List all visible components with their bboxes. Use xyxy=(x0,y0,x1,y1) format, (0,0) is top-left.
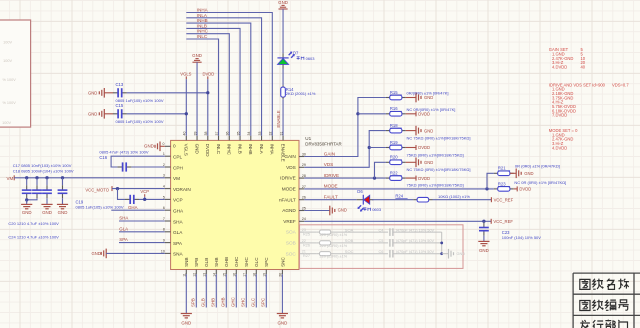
wire net IDRIVE pin28 to R22 xyxy=(304,177,386,179)
svg-text:SHA: SHA xyxy=(173,219,184,224)
wire net GHC stub pin 16 xyxy=(235,274,237,307)
wire net INLC to pin 37 xyxy=(186,39,218,136)
ground GND at R20 xyxy=(406,161,416,163)
svg-text:INLA: INLA xyxy=(259,144,264,155)
svg-text:R24: R24 xyxy=(395,194,403,199)
capacitor C23 xyxy=(483,221,485,222)
wire net GLB stub pin 13 xyxy=(205,274,207,307)
U1 pin 7 (SHA) xyxy=(165,220,171,222)
svg-text:VM: VM xyxy=(173,176,180,181)
wire C23 to GND xyxy=(483,236,485,242)
wire net GHB stub pin 15 xyxy=(225,274,227,307)
svg-text:% 100V: % 100V xyxy=(2,101,16,105)
svg-text:GHA: GHA xyxy=(128,205,138,210)
junction VDRAIN/VCP branch xyxy=(116,187,119,190)
wire VGLS to pin 40 xyxy=(185,79,187,136)
svg-text:SHC: SHC xyxy=(241,298,246,307)
svg-text:GND: GND xyxy=(194,144,199,155)
svg-text:21: 21 xyxy=(302,250,306,254)
svg-text:D6: D6 xyxy=(357,189,363,194)
svg-text:VDRAIN: VDRAIN xyxy=(173,187,191,192)
wire net GLC stub pin 18 xyxy=(255,274,257,307)
svg-text:0805 1uF(105) ±10% 100V: 0805 1uF(105) ±10% 100V xyxy=(116,119,164,124)
title row 图纸名称 xyxy=(580,279,590,289)
ground GND at R18 xyxy=(406,130,416,132)
svg-text:VCC_MOTO: VCC_MOTO xyxy=(85,187,109,192)
svg-text:DVDD: DVDD xyxy=(418,145,430,150)
junction dim 1 xyxy=(440,242,443,245)
dimmed ground GND xyxy=(442,253,449,255)
D7 emission arrows xyxy=(289,53,292,56)
wire pin 11 (SNB) to GND xyxy=(185,274,187,313)
power port DVDD at R22 xyxy=(406,177,416,179)
svg-text:GND: GND xyxy=(88,90,97,95)
resistor R20 xyxy=(386,161,390,163)
svg-text:VREF: VREF xyxy=(283,219,296,224)
capacitor C16 between CPL and CPH xyxy=(111,156,165,167)
svg-text:0R (0R0) ±1% [0R/47KΩ]: 0R (0R0) ±1% [0R/47KΩ] xyxy=(515,163,560,168)
resistor R22 xyxy=(386,177,390,179)
wire net INHB to pin 34 xyxy=(186,23,251,136)
U1 pin 27 (MODE) xyxy=(299,188,304,190)
wire D6 to R24 xyxy=(372,199,413,201)
svg-text:SHB: SHB xyxy=(211,298,216,307)
svg-text:8: 8 xyxy=(163,228,165,232)
svg-text:R23: R23 xyxy=(498,181,506,186)
svg-text:INHC: INHC xyxy=(197,29,209,34)
svg-text:GND: GND xyxy=(479,248,489,253)
svg-text:NC 0R (0R0) ±1% [0R/47KΩ]: NC 0R (0R0) ±1% [0R/47KΩ] xyxy=(514,180,566,185)
svg-text:CPH: CPH xyxy=(173,165,183,170)
svg-text:10KΩ (1002) ±1%: 10KΩ (1002) ±1% xyxy=(438,194,470,199)
U1 pin 23 (SOA) xyxy=(299,231,304,233)
U1 pin 1 (CPL) xyxy=(165,155,171,157)
svg-text:GND: GND xyxy=(91,251,100,256)
power port DVDD at R16 xyxy=(406,113,416,115)
U1 pin 28 (IDRIVE) xyxy=(299,177,304,179)
svg-text:100V: 100V xyxy=(3,41,12,45)
svg-text:VDS: VDS xyxy=(324,162,333,167)
dimmed capacitor C6 xyxy=(335,253,389,255)
svg-text:INLC: INLC xyxy=(216,144,221,155)
svg-text:3: 3 xyxy=(163,174,165,178)
wire DVDD to pin 38 xyxy=(207,79,209,136)
wire VCC_MOTO to pin 4 (VDRAIN) xyxy=(112,188,165,190)
power port DVDD at R23 xyxy=(514,188,518,190)
dimmed region rectangle xyxy=(300,225,464,269)
svg-text:SPC: SPC xyxy=(264,257,269,267)
svg-text:6: 6 xyxy=(163,206,165,210)
svg-text:C15: C15 xyxy=(116,103,124,108)
svg-text:0: 0 xyxy=(163,142,165,146)
U1 pin 25 (AGND) xyxy=(299,210,304,212)
svg-text:7: 7 xyxy=(163,217,165,221)
svg-text:INHB: INHB xyxy=(248,144,253,155)
svg-text:VDS=0.7: VDS=0.7 xyxy=(612,82,629,87)
svg-text:GND: GND xyxy=(181,321,191,326)
svg-text:24: 24 xyxy=(302,217,306,221)
wire C15 to VGLS line xyxy=(127,113,186,115)
junction VM cap 3 xyxy=(45,176,48,179)
svg-text:GND: GND xyxy=(424,160,433,165)
U1 pin 11 (SNB) xyxy=(185,270,187,275)
svg-text:0603: 0603 xyxy=(372,207,382,212)
svg-text:MODE: MODE xyxy=(324,184,338,189)
title row 图纸编号 xyxy=(580,301,590,311)
svg-text:SHC: SHC xyxy=(244,257,249,267)
U1 pin 30 (GAIN) xyxy=(299,156,304,158)
svg-text:4.DVDD: 4.DVDD xyxy=(552,65,567,70)
dimmed wire SOA xyxy=(393,231,442,233)
svg-text:7.DVDD: 7.DVDD xyxy=(552,113,567,118)
svg-text:VCC_REF: VCC_REF xyxy=(493,219,513,224)
svg-text:FAULT: FAULT xyxy=(324,195,338,200)
ground GND at pin 25 (AGND) xyxy=(304,210,329,212)
svg-text:GND: GND xyxy=(42,210,52,215)
power port DVDD at R19 xyxy=(406,147,416,149)
wire net SPB stub pin 12 xyxy=(195,274,197,307)
svg-text:NC 75KΩ (0R0) ±1%[0R/18K/75KΩ]: NC 75KΩ (0R0) ±1%[0R/18K/75KΩ] xyxy=(407,167,471,172)
svg-text:INHB: INHB xyxy=(197,18,208,23)
U1 pin 22 (SOB) xyxy=(299,242,304,244)
svg-text:R21: R21 xyxy=(498,166,506,171)
svg-text:R20: R20 xyxy=(390,155,398,160)
wire pin 20 (SNC) to GND xyxy=(281,274,283,313)
svg-text:R15: R15 xyxy=(390,90,398,95)
svg-text:SOC: SOC xyxy=(286,251,297,256)
svg-text:GND: GND xyxy=(457,252,466,256)
U1 pin 20 (SNC) xyxy=(281,270,283,275)
U1 pin 32 (INHA) xyxy=(271,136,273,141)
svg-text:0603: 0603 xyxy=(306,56,316,61)
svg-text:GND: GND xyxy=(58,210,68,215)
capacitor C19 xyxy=(125,198,130,200)
svg-text:SOC: SOC xyxy=(345,249,354,254)
svg-text:26: 26 xyxy=(302,196,306,200)
svg-text:U1: U1 xyxy=(305,136,311,141)
title block frame xyxy=(573,273,640,328)
resistor R23 xyxy=(494,188,498,190)
svg-text:GND: GND xyxy=(424,95,433,100)
wire net VDS pin29 to R18/R19 xyxy=(304,131,386,168)
svg-text:R25: R25 xyxy=(303,233,310,237)
U1 pin 4 (VDRAIN) xyxy=(165,188,171,190)
dimmed bus vertical xyxy=(441,232,443,254)
ground GND (C24) xyxy=(62,198,64,204)
svg-text:GHB: GHB xyxy=(224,257,229,267)
svg-text:INHC: INHC xyxy=(227,144,232,156)
wire net VREF pin24 to VCC_REF xyxy=(304,220,491,222)
wire net FAULT pin26 to D6 xyxy=(304,199,356,201)
svg-text:GND: GND xyxy=(278,321,288,326)
ground GND (C17/C18) xyxy=(26,200,28,204)
U1 pin 36 (INHC) xyxy=(228,136,230,141)
U1 pin 15 (GHB) xyxy=(225,270,227,275)
U1 pin 17 (SHC) xyxy=(245,270,247,275)
U1 pin 14 (SHB) xyxy=(215,270,217,275)
svg-text:100V: 100V xyxy=(3,59,12,63)
svg-text:5: 5 xyxy=(163,195,165,199)
svg-text:GND: GND xyxy=(88,111,97,116)
dimmed capacitor C5 xyxy=(335,242,389,244)
svg-text:nFAULT: nFAULT xyxy=(279,197,296,202)
U1 pin 0 (PAD) with GND xyxy=(165,145,171,147)
svg-text:NC 0R/(0R0) ±1% [0R/47K]: NC 0R/(0R0) ±1% [0R/47K] xyxy=(407,107,456,112)
U1 pin 34 (INHB) xyxy=(250,136,252,141)
svg-text:25: 25 xyxy=(302,206,306,210)
svg-text:IDRIVE: IDRIVE xyxy=(324,173,339,178)
svg-text:% 100V: % 100V xyxy=(2,78,16,82)
U1 pin 9 (SPA) xyxy=(165,242,171,244)
svg-text:INHA: INHA xyxy=(270,144,275,156)
svg-text:GND: GND xyxy=(22,210,32,215)
svg-text:R16: R16 xyxy=(390,106,398,111)
svg-text:SNB: SNB xyxy=(184,257,189,266)
wire GAIN branch to R16 xyxy=(358,113,386,115)
svg-text:SPA: SPA xyxy=(119,237,128,242)
svg-text:2KΩ (2001) ±1%: 2KΩ (2001) ±1% xyxy=(286,91,316,96)
wire net GAIN pin30 to R15/R16 xyxy=(304,98,386,157)
capacitor C17 xyxy=(26,178,28,185)
LED D6 (red) xyxy=(357,199,364,201)
svg-text:29: 29 xyxy=(302,163,306,167)
resistor R24 xyxy=(413,199,417,201)
junction VCP port xyxy=(143,198,146,201)
svg-text:C16: C16 xyxy=(99,155,107,160)
D6 value label (red LED 0603) xyxy=(363,208,370,211)
junction VREF/C23 xyxy=(482,220,485,223)
svg-text:0805 1uF(105) ±10% 100V: 0805 1uF(105) ±10% 100V xyxy=(116,98,164,103)
wire GND to LED D7 xyxy=(282,9,284,53)
svg-text:INLB: INLB xyxy=(237,144,242,154)
svg-text:DVDD: DVDD xyxy=(202,71,214,76)
svg-text:C20 1210 4.7uF ±10% 100V: C20 1210 4.7uF ±10% 100V xyxy=(8,221,59,226)
wire net INLB to pin 35 xyxy=(186,28,240,135)
svg-text:DVDD: DVDD xyxy=(418,176,430,181)
svg-text:INLB: INLB xyxy=(197,23,207,28)
svg-text:GLC: GLC xyxy=(254,257,259,267)
svg-text:NC 75KΩ (0R0) ±1%[0R/18K/75KΩ]: NC 75KΩ (0R0) ±1%[0R/18K/75KΩ] xyxy=(407,136,471,141)
dimmed resistor R25 net SOA xyxy=(304,231,316,233)
svg-text:0805 1uF(105) ±10% 100V: 0805 1uF(105) ±10% 100V xyxy=(76,204,124,209)
svg-text:220 (22R0) ±1%: 220 (22R0) ±1% xyxy=(320,255,348,259)
svg-text:R19: R19 xyxy=(390,140,398,145)
wire VDS branch to R19 xyxy=(369,147,386,149)
svg-text:4: 4 xyxy=(163,185,165,189)
U1 pin 24 (VREF) xyxy=(299,220,304,222)
ground GND (C20) xyxy=(46,198,48,204)
svg-text:GND: GND xyxy=(424,128,433,133)
svg-text:R27: R27 xyxy=(303,254,310,258)
svg-text:220 (22R0) ±1%: 220 (22R0) ±1% xyxy=(320,244,348,248)
wire net SPC stub pin 19 xyxy=(265,274,267,307)
svg-text:GND: GND xyxy=(278,0,288,5)
svg-text:SHA: SHA xyxy=(119,216,128,221)
svg-text:0R/(0R0) ±1% [0R/47K]: 0R/(0R0) ±1% [0R/47K] xyxy=(407,90,449,95)
svg-text:10: 10 xyxy=(161,249,165,253)
svg-text:28: 28 xyxy=(302,174,306,178)
svg-text:R22: R22 xyxy=(390,171,398,176)
svg-text:1: 1 xyxy=(163,152,165,156)
ground GND at C23 xyxy=(478,240,489,242)
U1 pin 16 (GHC) xyxy=(235,270,237,275)
svg-text:30: 30 xyxy=(302,152,306,156)
wire net SHA to pin 7 xyxy=(119,220,165,222)
svg-text:SNC: SNC xyxy=(280,257,285,267)
svg-text:DVDD: DVDD xyxy=(205,144,210,158)
svg-text:C5: C5 xyxy=(379,239,384,243)
svg-text:DVDD: DVDD xyxy=(519,187,531,192)
junction dim 2 xyxy=(440,252,443,255)
wire branch down to C19 xyxy=(118,189,126,200)
U1 pin 39 (GND) xyxy=(196,136,198,141)
ground GND at pin 11 xyxy=(181,313,192,315)
svg-text:40: 40 xyxy=(581,65,586,70)
svg-text:SPB: SPB xyxy=(194,258,199,267)
svg-text:4.DVDD: 4.DVDD xyxy=(552,145,567,150)
U1 pin 12 (SPB) xyxy=(195,270,197,275)
svg-text:MODE: MODE xyxy=(282,187,296,192)
resistor R16 xyxy=(386,113,390,115)
svg-text:22: 22 xyxy=(302,239,306,243)
capacitor C20 xyxy=(46,178,48,185)
dimmed wire SOB xyxy=(393,242,442,244)
wire MODE branch to R21 xyxy=(487,173,494,189)
ground GND at pin 20 xyxy=(277,313,288,315)
U1 pin 33 (INLA) xyxy=(261,136,263,141)
svg-text:ENABLE: ENABLE xyxy=(276,110,281,127)
op IC U1 DRV8350 body xyxy=(171,140,299,269)
svg-text:C17 0805 10nF(103) ±10% 100V: C17 0805 10nF(103) ±10% 100V xyxy=(13,163,72,168)
wire net GHA to pin 6 xyxy=(111,209,164,211)
svg-text:75KΩ (0R0) ±1%[0R/18K/75KΩ]: 75KΩ (0R0) ±1%[0R/18K/75KΩ] xyxy=(407,183,464,188)
svg-text:GAIN: GAIN xyxy=(324,151,335,156)
svg-text:VCC_REF: VCC_REF xyxy=(494,197,514,202)
wire net GLA to pin 8 xyxy=(119,231,165,233)
svg-text:CPL: CPL xyxy=(173,155,183,160)
svg-text:C13: C13 xyxy=(116,82,124,87)
svg-text:INLA: INLA xyxy=(197,13,207,18)
svg-text:C18 0805 100nF(104) ±10% 100V: C18 0805 100nF(104) ±10% 100V xyxy=(13,169,74,174)
U1 pin 6 (GHA) xyxy=(165,209,171,211)
U1 pin 5 (VCP) xyxy=(165,198,171,200)
wire IDRIVE branch to R20 xyxy=(375,162,386,178)
wire net INLA to pin 33 xyxy=(186,18,261,136)
U1 pin 21 (SOC) xyxy=(299,253,304,255)
sheet block rectangle (partially off-canvas) xyxy=(0,20,31,127)
dimmed resistor R27 net SOC xyxy=(304,253,316,255)
power port VCC_REF (VREF) xyxy=(490,219,492,224)
svg-text:SPA: SPA xyxy=(173,241,183,246)
svg-text:100V: 100V xyxy=(2,121,11,125)
svg-text:AGND: AGND xyxy=(282,208,296,213)
U1 pin 13 (GLB) xyxy=(205,270,207,275)
capacitor C18 xyxy=(36,178,38,185)
svg-text:INHA: INHA xyxy=(197,8,208,13)
svg-text:SOB: SOB xyxy=(345,238,354,243)
svg-text:SOB: SOB xyxy=(286,241,296,246)
dimmed wire SOC xyxy=(393,253,442,255)
junction caps gnd xyxy=(25,198,28,201)
svg-text:D7: D7 xyxy=(293,51,299,56)
wire R14 to pin 31 (ENABLE) xyxy=(282,99,284,136)
svg-text:INLC: INLC xyxy=(197,34,208,39)
U1 pin 31 (ENABLE) xyxy=(282,136,284,141)
junction VM cap 4 xyxy=(61,176,64,179)
wire cap C17 to GND xyxy=(26,198,28,202)
svg-text:SPB: SPB xyxy=(191,298,196,307)
svg-text:0805 47uF (473) 10% 100V: 0805 47uF (473) 10% 100V xyxy=(99,150,148,155)
resistor R18 xyxy=(386,130,390,132)
wire C19 to pin 5 (VCP) xyxy=(139,198,165,200)
svg-text:GLB: GLB xyxy=(204,258,209,267)
svg-text:VGLS: VGLS xyxy=(184,144,189,156)
wire net MODE pin27 to R23 xyxy=(304,188,494,190)
svg-text:SNA: SNA xyxy=(173,252,184,257)
U1 pin 18 (GLC) xyxy=(255,270,257,275)
wire R24 to VCC_REF xyxy=(433,199,492,201)
capacitor C24 xyxy=(62,178,64,185)
LED D7 (green) xyxy=(282,53,284,58)
svg-text:2: 2 xyxy=(163,163,165,167)
svg-text:GHA: GHA xyxy=(173,209,184,214)
svg-text:VGLS: VGLS xyxy=(180,71,191,76)
U1 pin 35 (INLB) xyxy=(239,136,241,141)
ground GND at R21 xyxy=(510,172,516,174)
wire VM to pin 3 xyxy=(14,177,165,179)
U1 pin 29 (VDS) xyxy=(299,166,304,168)
svg-text:GLA: GLA xyxy=(173,230,183,235)
svg-text:GLC: GLC xyxy=(251,298,256,307)
wire net SPA to pin 9 xyxy=(119,242,165,244)
resistor R15 xyxy=(386,97,390,99)
U1 pin 8 (GLA) xyxy=(165,231,171,233)
wire net INHA to pin 32 xyxy=(186,13,272,136)
wire net SHB stub pin 14 xyxy=(215,274,217,307)
junction VDS/R19 xyxy=(368,146,371,149)
U1 pin 2 (CPH) xyxy=(165,166,171,168)
svg-text:C6: C6 xyxy=(379,250,384,254)
dimmed capacitor C4 xyxy=(335,231,389,233)
wire GND to pin 39 xyxy=(196,62,198,136)
svg-text:GHC: GHC xyxy=(234,256,239,267)
svg-text:9: 9 xyxy=(163,239,165,243)
svg-text:VCP: VCP xyxy=(173,198,183,203)
U1 pin 40 (VGLS) xyxy=(185,136,187,141)
junction MODE/R21 xyxy=(485,187,488,190)
svg-text:VM: VM xyxy=(7,176,14,181)
svg-text:SOA: SOA xyxy=(286,230,297,235)
svg-text:R26: R26 xyxy=(303,243,310,247)
D6 emission arrows xyxy=(359,205,362,208)
svg-text:27: 27 xyxy=(302,185,306,189)
svg-text:100nF (104) 10% 50V: 100nF (104) 10% 50V xyxy=(502,235,541,240)
resistor R21 xyxy=(494,172,498,174)
svg-text:GLA: GLA xyxy=(119,226,128,231)
svg-text:GND: GND xyxy=(338,207,347,212)
svg-text:VCP: VCP xyxy=(140,189,149,194)
svg-text:C24 1210 4.7uF ±10% 100V: C24 1210 4.7uF ±10% 100V xyxy=(8,235,59,240)
wire cap C18 joins C17 xyxy=(27,198,37,200)
svg-text:IDRIVE: IDRIVE xyxy=(280,176,296,181)
svg-text:VDS: VDS xyxy=(286,165,296,170)
svg-text:SOA: SOA xyxy=(345,227,354,232)
svg-text:GHB: GHB xyxy=(221,297,226,307)
junction VM cap 2 xyxy=(35,176,38,179)
svg-text:DRV8350FHRTAR: DRV8350FHRTAR xyxy=(305,142,341,147)
wire net SHC stub pin 17 xyxy=(245,274,247,307)
U1 pin 26 (nFAULT) xyxy=(299,199,304,201)
